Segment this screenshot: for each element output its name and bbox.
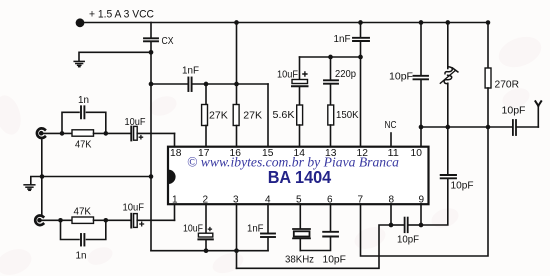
capacitor 10pF (pin 6)	[330, 204, 332, 232]
wire lower link bus	[237, 225, 392, 268]
svg-text:2: 2	[203, 195, 209, 206]
wire 10uF to pin 18	[137, 132, 174, 134]
wire ground bottom bus	[151, 250, 268, 252]
wire pin 7 to output loop	[361, 127, 489, 256]
resistor 47K (top)	[72, 130, 94, 136]
wire pin 12 riser	[360, 57, 362, 146]
wire 10uF to pin 1	[137, 219, 174, 221]
pin numbers top row	[170, 148, 422, 159]
svg-text:1nF: 1nF	[334, 34, 351, 45]
wire CX drop from rail	[150, 23, 152, 38]
node junction (421,225)	[419, 223, 424, 228]
trimmer capacitor (x=447.8)	[447, 23, 449, 69]
wire VCC rail	[80, 22, 488, 24]
svg-text:270R: 270R	[495, 79, 520, 91]
pin numbers bottom row	[172, 195, 425, 206]
IC pin-1 notch marker	[168, 170, 175, 184]
capacitor 1nF (pin 4)	[267, 204, 269, 233]
resistor 47K (bottom)	[72, 217, 94, 223]
label + of pin14 10uF	[302, 71, 307, 76]
svg-text:10uF: 10uF	[183, 224, 203, 235]
svg-text:8: 8	[389, 195, 395, 206]
label + of pin2 10uF	[208, 227, 212, 231]
antenna	[537, 105, 539, 127]
capacitor 10uF (bottom input, polarized)	[130, 214, 132, 228]
node junction (42,176.5)	[40, 174, 45, 179]
capacitor 10pF (pins 8-9)	[391, 224, 404, 226]
svg-text:1nF: 1nF	[247, 224, 264, 235]
svg-text:BA 1404: BA 1404	[268, 167, 332, 187]
capacitor 1nF (VCC to pin12 rail)	[360, 23, 362, 38]
svg-text:27K: 27K	[209, 111, 228, 122]
node junction (488,127)	[486, 125, 491, 130]
svg-text:10uF: 10uF	[123, 203, 145, 214]
node junction (236.5,84)	[234, 82, 239, 87]
svg-text:10pF: 10pF	[323, 254, 346, 265]
node junction (447.8,22.5)	[445, 20, 450, 25]
input jack R (bottom)	[35, 216, 43, 226]
node junction (360.5,22.5)	[358, 20, 363, 25]
wire to x=447.8 riser	[421, 180, 448, 226]
node junction (206,84)	[204, 82, 209, 87]
capacitor CX	[144, 38, 158, 41]
svg-text:6: 6	[327, 195, 333, 206]
svg-text:5.6K: 5.6K	[273, 110, 295, 121]
node junction (421,22.5)	[419, 20, 424, 25]
svg-text:CX: CX	[162, 36, 174, 47]
node junction (236.5,22.5)	[234, 20, 239, 25]
svg-text:1n: 1n	[76, 251, 87, 262]
node CX-ground junction	[149, 50, 154, 55]
svg-text:47K: 47K	[75, 139, 92, 150]
node junction (236.5,250.7)	[234, 248, 239, 253]
wire y=84 feed	[151, 83, 187, 85]
node junction (330.5,57)	[328, 55, 333, 60]
ground symbol top-left	[74, 61, 84, 66]
node junction (206,250.7)	[204, 248, 209, 253]
capacitor 1n bypass loop (bottom)	[61, 220, 80, 239]
resistor 27K (pin 16)	[236, 84, 238, 105]
capacitor 10uF (pin 14 branch, polarized)	[299, 57, 301, 80]
node junction (60.5,220.3)	[58, 218, 63, 223]
node VCC terminal dot	[76, 18, 85, 27]
wire pin 9 drop	[420, 204, 422, 225]
wire pin 8 drop	[390, 204, 392, 225]
svg-text:10pF: 10pF	[389, 72, 413, 83]
wire pin 10 riser	[420, 127, 422, 146]
svg-text:10pF: 10pF	[502, 106, 526, 117]
capacitor 1nF (series, top-left)	[188, 78, 191, 92]
resistor 270R	[487, 23, 489, 69]
crystal 38KHz (pin 5)	[299, 204, 301, 229]
node junction (391,225)	[389, 223, 394, 228]
wire NC stub (pin 11)	[390, 133, 392, 146]
svg-text:18: 18	[170, 148, 182, 159]
wire y=57 rail	[300, 56, 361, 58]
svg-text:1: 1	[172, 195, 178, 206]
capacitor 1n bypass loop (top)	[62, 112, 79, 133]
wire crystal to 10pF	[300, 237, 330, 250]
wire jack L to 47K	[44, 132, 72, 134]
node junction (105.8,133.4)	[104, 131, 109, 136]
capacitor 10pF (right mid, on x=447.8)	[441, 175, 456, 178]
wire pin15 drop	[267, 84, 269, 146]
wire jack shield vertical	[41, 138, 43, 216]
svg-text:47K: 47K	[74, 207, 92, 218]
svg-text:1n: 1n	[78, 95, 89, 106]
svg-text:27K: 27K	[243, 111, 262, 122]
label + of bottom-left 10uF	[139, 222, 144, 227]
wire pin 3 drop	[236, 204, 238, 268]
label + of top 10uF	[139, 135, 144, 140]
node junction (151,176.5)	[149, 174, 154, 179]
resistor 27K (pin 17)	[205, 84, 207, 105]
svg-text:7: 7	[358, 195, 364, 206]
svg-text:10uF: 10uF	[277, 70, 298, 81]
svg-text:5: 5	[296, 195, 302, 206]
wire ground stub (left-mid)	[31, 177, 42, 185]
node junction (360.5,57)	[358, 55, 363, 60]
node junction (488,22.5)	[486, 20, 491, 25]
wire ground to IC notch	[42, 176, 151, 178]
svg-text:3: 3	[233, 195, 239, 206]
resistor 150K	[328, 105, 334, 125]
svg-text:10uF: 10uF	[125, 117, 146, 128]
node junction (447.8,127)	[445, 125, 450, 130]
ground symbol left-mid	[24, 185, 35, 191]
svg-text:10: 10	[411, 148, 423, 159]
svg-text:38KHz: 38KHz	[285, 254, 314, 265]
svg-text:4: 4	[265, 195, 271, 206]
svg-text:10pF: 10pF	[397, 235, 419, 246]
capacitor 220p	[330, 57, 332, 80]
IC BA1404 body	[168, 147, 429, 205]
svg-text:+ 1.5 A 3 VCC: + 1.5 A 3 VCC	[89, 9, 154, 21]
svg-text:150K: 150K	[336, 110, 359, 121]
node junction (105.8,220.3)	[104, 218, 109, 223]
svg-text:NC: NC	[385, 120, 397, 131]
wire jack R to 47K	[42, 219, 72, 221]
resistor 5.6K	[297, 105, 303, 125]
svg-text:220p: 220p	[335, 69, 356, 80]
node junction (421,127)	[419, 125, 424, 130]
capacitor 10pF (pin10 to VCC)	[420, 81, 422, 128]
input jack L (top)	[37, 128, 45, 138]
wire ground rail top-left	[80, 51, 151, 53]
wire VCC drop x=236.5	[236, 23, 238, 85]
svg-text:9: 9	[419, 195, 425, 206]
svg-text:10pF: 10pF	[451, 180, 474, 191]
wire after 1nF to pin 15 corner	[193, 83, 268, 85]
node junction (62,133.4)	[60, 131, 65, 136]
svg-text:1nF: 1nF	[182, 66, 199, 77]
wire antenna feed	[421, 126, 512, 128]
capacitor 10uF (top input, polarized)	[130, 127, 132, 141]
node junction at (151,84)	[149, 82, 154, 87]
capacitor 10uF (pin 2, polarized)	[205, 204, 207, 233]
wire long vertical left bus x=151	[150, 52, 152, 250]
capacitor 10pF (antenna coupling)	[513, 120, 516, 135]
